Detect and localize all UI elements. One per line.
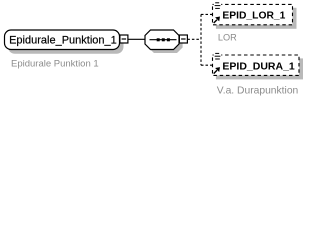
svg-text:Epidurale_Punktion_1: Epidurale_Punktion_1	[9, 35, 117, 47]
wire element to sequence	[128, 38, 146, 40]
optional element EPID_LOR_1 box	[213, 4, 293, 24]
expand box (minus) on element	[120, 35, 128, 43]
sequence line with dots	[150, 38, 177, 41]
sequence compositor shadow	[148, 33, 182, 53]
element box Epidurale_Punktion_1	[5, 30, 120, 50]
svg-text:LOR: LOR	[218, 33, 237, 43]
reference arrow on EPID_DURA_1	[214, 67, 220, 74]
dashed stub to EPID_LOR_1	[201, 13, 212, 15]
element box Epidurale_Punktion_1 shadow	[8, 34, 124, 54]
complex content icon (three bars) on EPID_DURA_1	[214, 52, 222, 60]
optional element EPID_DURA_1 shadow	[216, 58, 303, 79]
dashed wire sequence to branch	[187, 38, 201, 40]
svg-text:Epidurale Punktion 1: Epidurale Punktion 1	[11, 59, 99, 70]
svg-text:V.a. Durapunktion: V.a. Durapunktion	[217, 85, 299, 96]
dashed stub to EPID_DURA_1	[201, 64, 212, 66]
dashed branch vertical	[200, 14, 202, 65]
optional element EPID_LOR_1 shadow	[216, 8, 297, 29]
optional element EPID_DURA_1 box	[213, 55, 300, 75]
expand box (minus) on sequence	[179, 35, 187, 43]
sequence compositor octagon	[145, 30, 179, 50]
svg-text:EPID_DURA_1: EPID_DURA_1	[222, 60, 295, 72]
svg-text:EPID_LOR_1: EPID_LOR_1	[222, 11, 285, 22]
complex content icon (three bars) on EPID_LOR_1	[214, 1, 222, 9]
reference arrow on EPID_LOR_1	[214, 17, 220, 24]
